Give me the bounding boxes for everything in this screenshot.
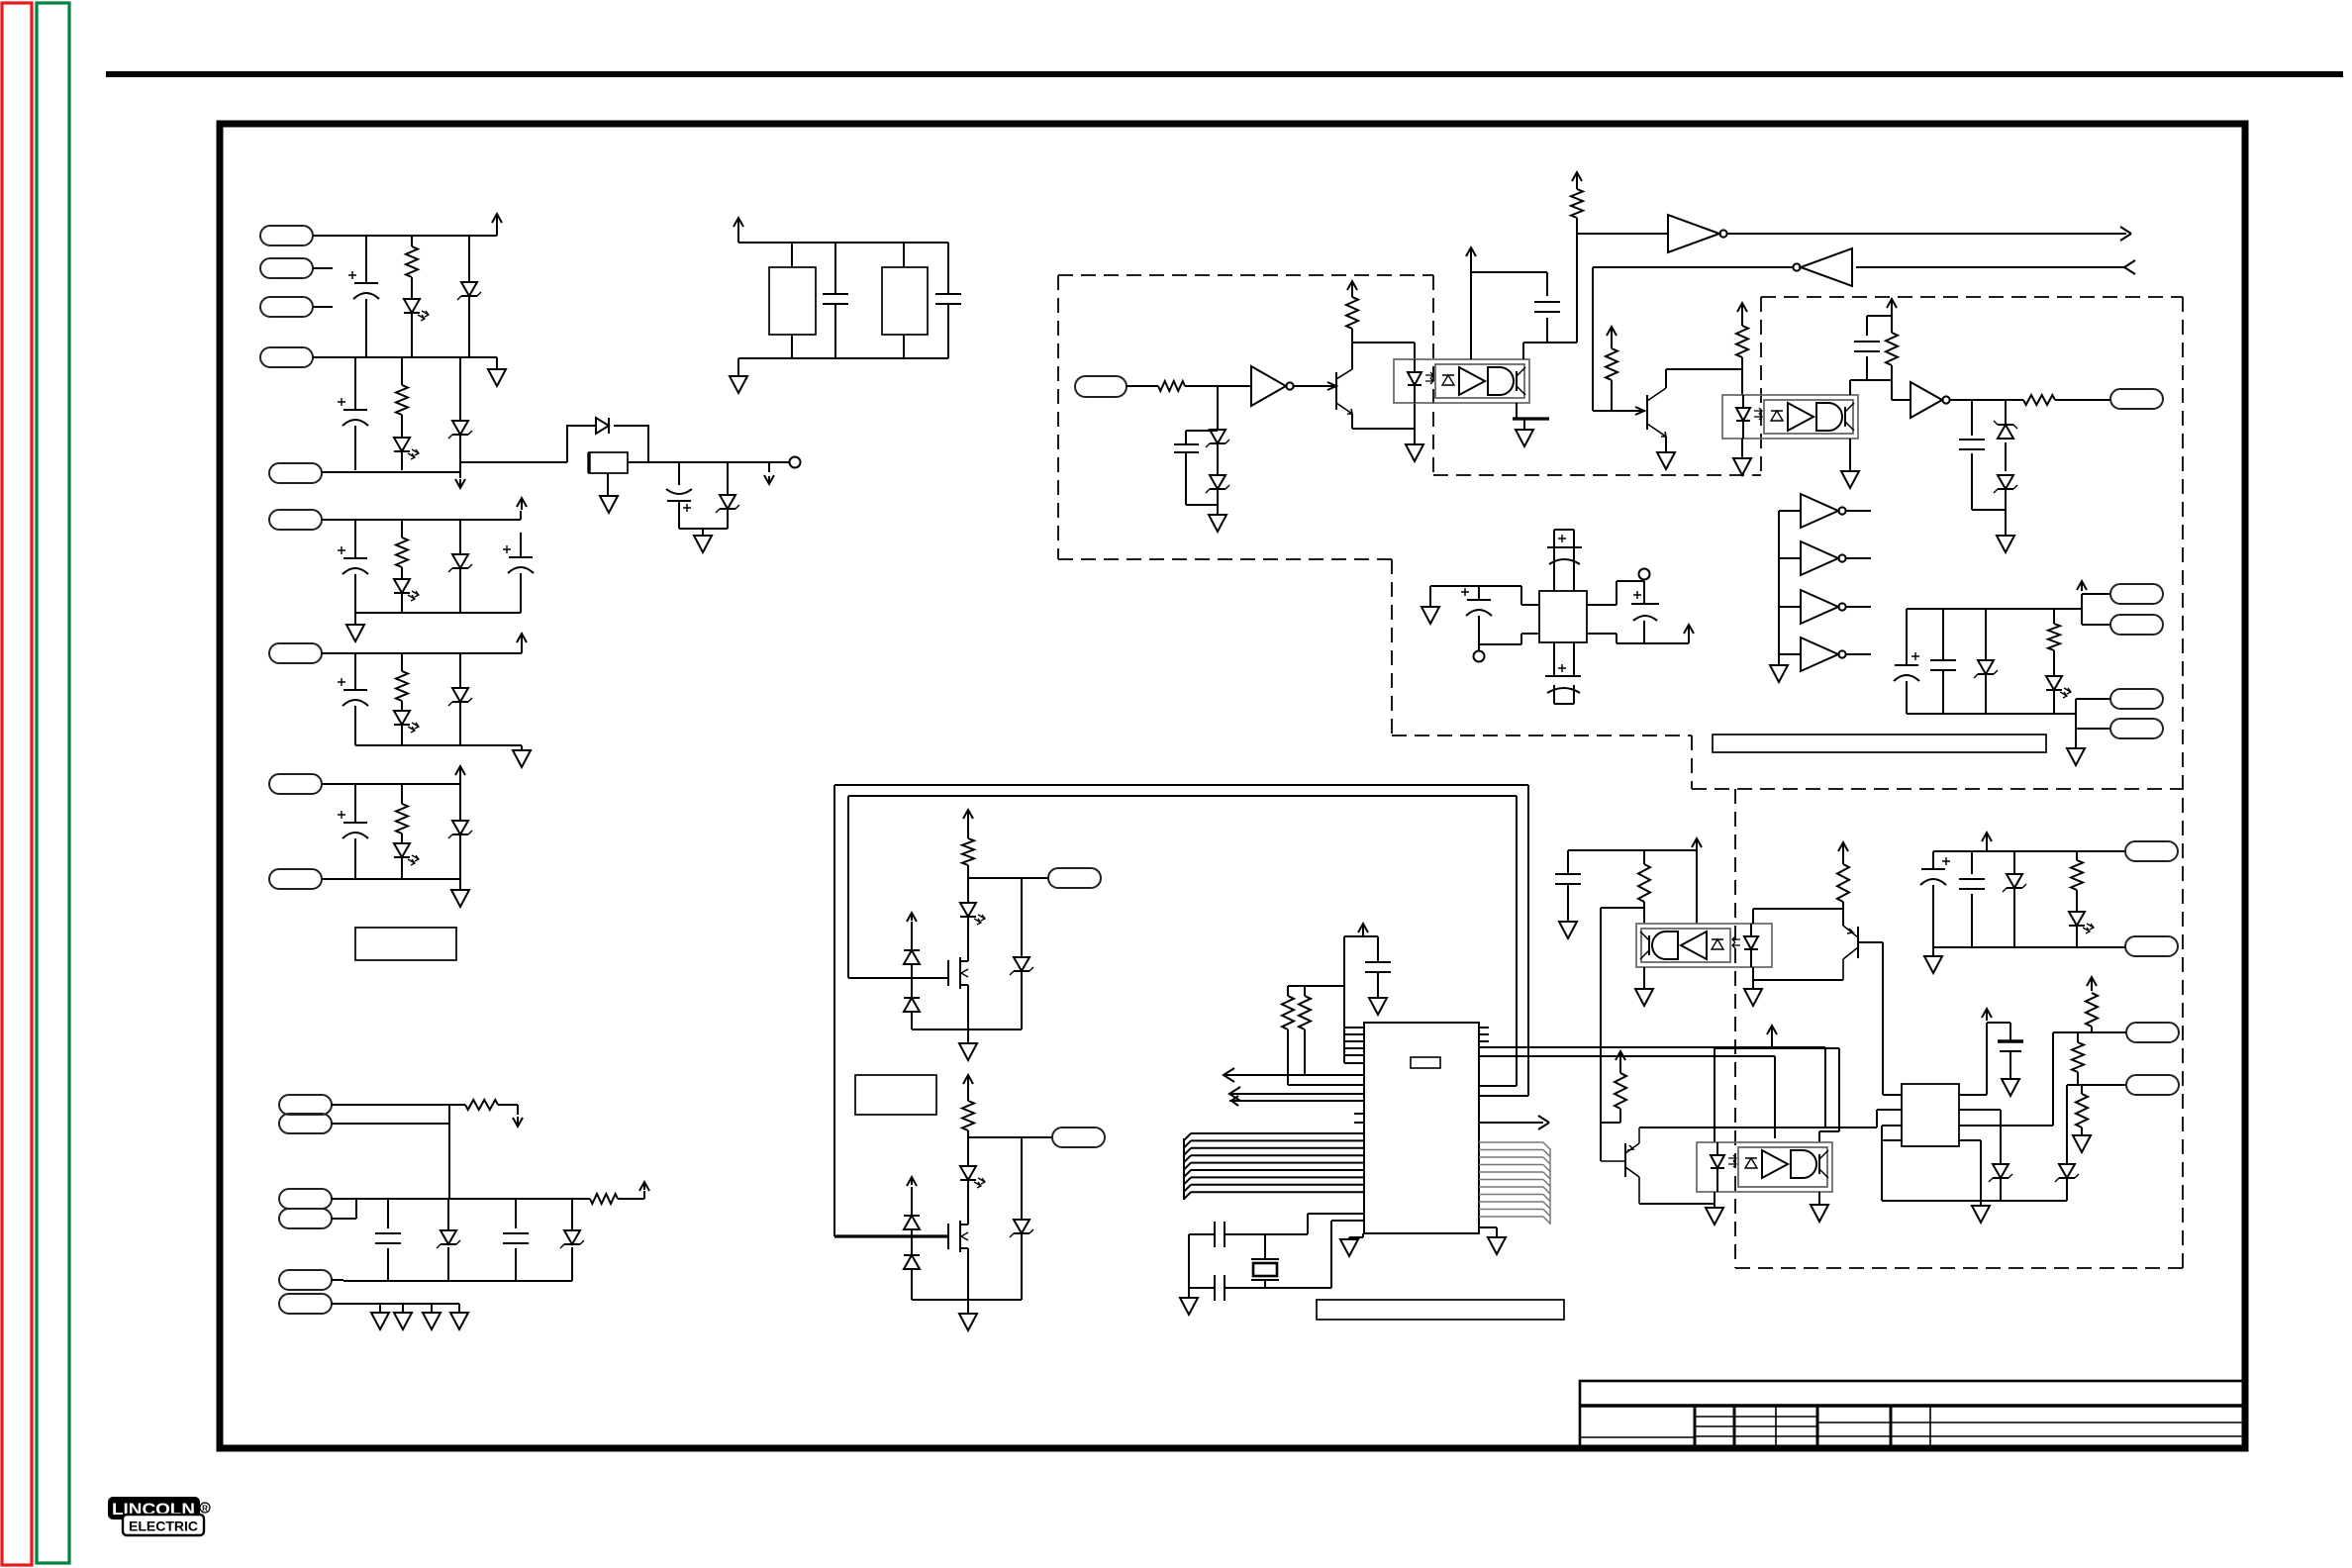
wire block5 top rail — [322, 778, 460, 784]
connector J6-1 — [1048, 868, 1101, 888]
wire opto4 emitter — [1818, 1192, 1820, 1205]
LED D26 — [960, 1166, 976, 1180]
power arrow VCC17 — [1358, 924, 1368, 932]
transistor Q1 — [1335, 372, 1337, 410]
capacitor C27 — [1932, 851, 1934, 947]
wire snubber bottom rail — [738, 358, 948, 376]
wire block2 bottom rail — [322, 462, 567, 478]
transistor Q6 pnp — [1624, 1143, 1626, 1177]
connector J2-2 — [279, 1114, 332, 1133]
dashed box driver section — [1735, 789, 2183, 1268]
inverter U1A — [1251, 366, 1286, 406]
wire mcu signal b — [1229, 1094, 1364, 1101]
wire supply rail bottom — [1907, 699, 2110, 748]
ground opto1 out — [1516, 430, 1533, 446]
wire mosfet2 node — [968, 1137, 1052, 1166]
svg-text:R: R — [202, 1505, 208, 1514]
wire J2 lower rail — [332, 1280, 572, 1281]
zener D25 — [1021, 1137, 1023, 1300]
wire mcu gnd left — [1349, 1233, 1363, 1239]
arrow J2 down — [513, 1117, 523, 1127]
capacitor C24 — [1215, 1275, 1225, 1301]
zener D12 — [459, 784, 461, 879]
arrow ctrl in — [2124, 260, 2135, 274]
wire U1D out — [1949, 399, 2110, 401]
resistor R14 — [1741, 313, 1743, 395]
resistor R28 — [2072, 1042, 2084, 1072]
wire snubber top rail — [738, 230, 948, 243]
wire opto3 led — [1753, 902, 1843, 989]
arrow net down — [455, 479, 465, 488]
power arrow VCC22 — [1982, 1009, 1992, 1021]
optocoupler U2 — [1394, 359, 1529, 403]
wire Q6 collector — [1639, 1203, 1715, 1205]
capacitor C18 — [1478, 586, 1480, 644]
arrow output down — [768, 462, 770, 472]
connector J5-4 — [2110, 719, 2163, 738]
inverter U5C — [1801, 590, 1838, 624]
ground block1 — [488, 369, 506, 386]
capacitor C8 — [387, 1199, 389, 1281]
zener D19 — [1985, 609, 1987, 714]
resistor R29 — [2076, 1094, 2088, 1127]
wire U5C out — [1846, 606, 1871, 608]
wire mcu gnd right — [1479, 1227, 1497, 1237]
ground Q2 — [1657, 452, 1675, 469]
schematic sheet border — [220, 124, 2245, 1448]
wire Q2 collector — [1666, 369, 1742, 388]
inverter U5A — [1801, 494, 1838, 528]
terminal dcdc in — [1474, 651, 1485, 662]
connector J2-3 — [279, 1189, 332, 1209]
resistor R4 — [401, 653, 403, 745]
connector J1-9 — [269, 869, 322, 889]
connector J6-2 — [1052, 1127, 1105, 1147]
wire gate loop outer bold — [834, 1234, 948, 1237]
capacitor C12 — [1174, 444, 1199, 452]
wire block4 bottom rail — [355, 745, 522, 750]
ground opto3 out — [1635, 989, 1653, 1006]
wire opto2 emitter — [1849, 439, 1851, 471]
wire J2 top pair — [332, 1105, 449, 1199]
resistor R5 — [401, 784, 403, 879]
ground opto1 led — [1406, 444, 1423, 461]
capacitor C6 — [354, 653, 356, 745]
terminal dcdc out — [1639, 569, 1650, 580]
ground mosfet2 — [959, 1314, 977, 1330]
wire mosfet1 bottom rail — [912, 1029, 1022, 1043]
wire block1 top rail — [313, 235, 497, 237]
power arrow VCC6 — [734, 218, 743, 230]
capacitor C22 — [1365, 962, 1391, 972]
connector J1-8 — [269, 774, 322, 794]
resistor R21 — [967, 1085, 969, 1137]
zener D2 — [468, 236, 470, 357]
zener D10 — [459, 653, 461, 745]
power arrow mosfet2 — [907, 1177, 917, 1186]
ground opto3 cap — [1559, 922, 1577, 938]
ground opto4 led — [1706, 1208, 1723, 1225]
connector J2-6 — [279, 1294, 332, 1314]
resistor R17 — [2053, 609, 2055, 714]
wire U5D out — [1846, 653, 1871, 655]
connector J5-1 — [2110, 584, 2163, 604]
wire opto3 input — [1601, 907, 1644, 909]
zener D4 — [459, 357, 461, 470]
power arrow VCC5 — [455, 766, 465, 778]
wire mcu signal a — [1224, 1074, 1364, 1076]
optocoupler U8 — [1697, 1142, 1832, 1192]
LED D7 — [394, 579, 410, 593]
wire mcu net B — [1479, 1055, 1775, 1057]
ground relay rc — [694, 536, 712, 552]
resistor R11 — [1351, 287, 1353, 369]
ground opto2 out — [1841, 471, 1859, 488]
top rule — [106, 71, 2343, 77]
connector J7-2 — [2125, 936, 2178, 956]
connector J5-2 — [2110, 615, 2163, 635]
capacitor C3 — [678, 462, 680, 529]
capacitor C14 — [1854, 342, 1880, 351]
label bar right — [1713, 735, 2046, 752]
wire mcu vcc tee — [1344, 932, 1378, 1063]
power arrow VCC4 — [517, 634, 527, 645]
LED D9 — [394, 711, 410, 725]
connector J3-1 — [1075, 376, 1127, 397]
resistor module RN1 — [791, 243, 793, 358]
ground xtal — [1180, 1298, 1198, 1315]
LED D3 — [394, 438, 410, 451]
connector J1-5 — [269, 463, 322, 483]
mosfet Q3 — [947, 960, 949, 986]
ground opto2 led — [1733, 458, 1751, 475]
power arrow VCC1 — [492, 214, 502, 236]
inverter U1D — [1911, 382, 1942, 418]
resistor R25 — [1837, 864, 1849, 902]
ground block3 — [346, 625, 364, 641]
power arrow VCC18 — [1692, 838, 1702, 847]
inverter U5D — [1801, 637, 1838, 671]
driver IC U9 — [1902, 1084, 1959, 1146]
power arrow VCC13 — [1684, 625, 1694, 634]
ground block4 — [513, 750, 531, 767]
dashed box feedback section — [1058, 275, 1692, 789]
capacitor C16 top — [1554, 530, 1574, 591]
arrow mcu signal b — [1229, 1087, 1240, 1106]
page edge green bar — [37, 3, 69, 1563]
capacitor C20 — [1906, 609, 1908, 714]
bus mcu right — [1479, 1142, 1550, 1224]
inverter U1C — [1801, 248, 1852, 286]
power arrow VCC19 — [1838, 842, 1848, 851]
diode D27 — [911, 1187, 913, 1300]
bus mcu left — [1184, 1133, 1364, 1199]
wire ctrl out — [1577, 233, 1668, 235]
wire vcc8 branch — [1471, 257, 1547, 359]
wire block3 bottom rail — [355, 613, 521, 625]
wire mosfet1 node — [968, 878, 1048, 903]
terminal output — [790, 457, 801, 468]
arrow mcu signal a — [1224, 1068, 1234, 1082]
ground driver — [1972, 1206, 1990, 1223]
wire dcdc left lower — [1479, 634, 1539, 650]
ground driver cap — [2002, 1079, 2019, 1096]
ground zener stack — [1997, 536, 2014, 552]
power arrow mosfet1 — [907, 913, 917, 922]
diode D24 — [904, 998, 920, 1012]
wire net A vertical — [1600, 908, 1602, 1161]
resistor R6 — [449, 1105, 518, 1115]
optocoupler U3 — [1722, 395, 1858, 439]
power arrow VCC20 — [1616, 1051, 1625, 1060]
zener D15 — [1210, 430, 1225, 443]
wire ctrl out long — [1727, 233, 2126, 235]
resistor R27 — [2086, 993, 2098, 1027]
connector J1-2 — [260, 258, 313, 278]
transistor Q2 — [1646, 395, 1648, 430]
capacitor C19 — [1643, 594, 1645, 643]
ground relay — [600, 496, 618, 513]
zener D18 — [1998, 475, 2013, 489]
wire relay rc ground rail — [679, 529, 728, 536]
resistor R3 — [401, 520, 403, 613]
wire dcdc right lower — [1587, 634, 1689, 643]
ground inverter bus — [1770, 665, 1788, 682]
label box block area — [355, 928, 456, 960]
capacitor C11 — [947, 243, 949, 358]
ground J2 b — [394, 1313, 412, 1329]
capacitor C1 — [365, 236, 367, 357]
wire U1C out — [1593, 267, 1794, 415]
zener D30 — [2059, 1164, 2075, 1178]
wire xtal lower — [1189, 1221, 1364, 1288]
wire mcu net A — [1479, 1046, 1825, 1048]
wire net A to driver — [1639, 1047, 1902, 1127]
connector J1-7 — [269, 643, 322, 663]
connector J1-4 — [260, 347, 313, 367]
power arrow VCC14 — [2077, 581, 2087, 591]
power arrow VCC23 — [2087, 977, 2097, 991]
zener D21 — [1021, 878, 1023, 1029]
resistor R24 — [1638, 864, 1650, 902]
wire mosfet2 bottom rail — [912, 1300, 1022, 1314]
wire inverter bus — [1779, 511, 1801, 665]
wire driver vcc pin — [1959, 1023, 2010, 1095]
wire block3 top rail — [322, 511, 521, 520]
svg-text:ELECTRIC: ELECTRIC — [129, 1519, 198, 1534]
power arrow VCC15 — [963, 810, 973, 820]
wire opto2 collector net — [1850, 316, 1892, 395]
wire Q2 emitter — [1665, 437, 1667, 452]
wire U1A out to Q1 — [1294, 382, 1336, 390]
connector J2-4 — [279, 1209, 332, 1228]
arrow mcu out — [1538, 1116, 1549, 1129]
wire block4 top rail — [322, 645, 522, 653]
zener D14 — [571, 1199, 573, 1281]
wire net B to opto4 — [1774, 1056, 1776, 1138]
capacitor C26 — [1998, 1039, 2023, 1042]
transistor Q5 pnp — [1857, 927, 1859, 958]
LED D20 — [2046, 676, 2062, 690]
ground isolated supply — [1924, 956, 1942, 973]
crystal Y1 — [1251, 1234, 1279, 1288]
ground mcu cap — [1369, 998, 1387, 1015]
resistor R26 — [1615, 1073, 1626, 1109]
capacitor C2 — [354, 357, 356, 470]
wire U5A out — [1846, 510, 1871, 512]
wire U5B out — [1846, 557, 1871, 559]
wire driver out2 — [1959, 1032, 2126, 1126]
dashed box output section — [1692, 297, 2183, 1268]
power arrow VCC7 — [1347, 281, 1357, 290]
wire relay bypass loop — [567, 426, 648, 462]
ground opto4 out — [1811, 1205, 1828, 1222]
ground snubber — [730, 376, 747, 393]
resistor R10 — [1158, 381, 1185, 391]
resistor R22 — [1282, 996, 1294, 1029]
wire opto1 thick bar — [1513, 417, 1549, 420]
wire opto3 vcc rail — [1568, 850, 1697, 924]
resistor R13 — [1611, 335, 1613, 411]
inverter U1B — [1668, 215, 1719, 252]
wire J1-3 stub — [313, 306, 333, 308]
power arrow VCC9 — [1572, 172, 1582, 181]
LED D11 — [394, 843, 410, 857]
wire block1 bottom rail — [313, 357, 497, 369]
power arrow VCC24 — [1982, 833, 1992, 841]
ground opto3 led — [1744, 989, 1762, 1006]
ground box A input — [1209, 515, 1226, 532]
power arrow VCC12 — [1887, 299, 1897, 308]
connector J7-1 — [2125, 841, 2178, 861]
capacitor C15 — [1959, 440, 1985, 449]
connector J1-3 — [260, 297, 313, 317]
power arrow VCC10 — [1607, 327, 1617, 336]
wire Q1 emitter — [1352, 403, 1415, 444]
LED D1 — [404, 299, 420, 313]
ground dcdc — [1421, 607, 1439, 624]
microcontroller U6 — [1364, 1023, 1479, 1233]
zener D13 — [447, 1199, 449, 1281]
connector J4-1 — [2110, 389, 2163, 409]
wire gate loop inner — [848, 796, 1517, 1086]
capacitor C5 — [520, 533, 522, 613]
power arrow VCC11 — [1737, 303, 1747, 313]
wire mcu left stubs — [1354, 1114, 1364, 1123]
wire zener stack — [1972, 400, 2006, 536]
resistor R15 — [1892, 307, 1911, 400]
dashed box gate drive section — [1433, 275, 1761, 475]
capacitor C17 bottom — [1554, 642, 1574, 704]
zener D17 — [1998, 425, 2013, 439]
wire mcu right stubs — [1479, 1028, 1489, 1041]
zener D16 — [1210, 475, 1225, 489]
zener D31 — [2013, 851, 2015, 947]
wire driver out1 — [1959, 1110, 2001, 1164]
ground supply rail — [2067, 748, 2085, 765]
wire J2 main rail — [332, 1199, 590, 1219]
connector J7-4 — [2126, 1075, 2179, 1095]
resistor module RN2 — [903, 243, 905, 358]
wire mcu arrow out — [1479, 1122, 1543, 1124]
resistor R7 — [618, 1191, 644, 1199]
power arrow VCC21 — [1767, 1026, 1777, 1034]
zener D29 — [1993, 1164, 2009, 1178]
wire opto4 led supply — [1715, 1032, 1839, 1142]
resistor R16 — [2023, 395, 2055, 405]
wire opto3 out emitter — [1643, 967, 1645, 989]
ground J2 a — [371, 1313, 389, 1329]
diode D5 — [596, 418, 609, 434]
label box mosfet — [855, 1075, 936, 1115]
title block — [1580, 1381, 2245, 1447]
wire mcu pin comb — [1344, 1028, 1364, 1063]
inverter U5B — [1801, 541, 1838, 575]
wire xtal upper — [1189, 1214, 1364, 1298]
ground mosfet1 — [959, 1043, 977, 1060]
connector J7-3 — [2126, 1023, 2179, 1042]
capacitor C4 — [354, 520, 356, 613]
wire J2 ground rail — [332, 1304, 459, 1313]
mosfet Q4 — [947, 1224, 949, 1249]
resistor R20 — [967, 820, 969, 878]
ground J2 c — [423, 1313, 441, 1329]
wire gate loop outer — [834, 785, 1528, 1236]
power arrow J2 — [639, 1182, 649, 1191]
diode D23 — [911, 922, 913, 1029]
page edge red bar — [2, 3, 32, 1565]
power arrow VCC16 — [963, 1075, 973, 1085]
resistor R2 — [401, 357, 403, 470]
wire driver left lower pins — [1882, 1126, 1902, 1201]
capacitor C7 — [354, 784, 356, 879]
wire dcdc right upper — [1587, 581, 1644, 605]
capacitor C25 — [1555, 874, 1581, 884]
capacitor C23 — [1215, 1222, 1225, 1247]
ground mcu left — [1340, 1239, 1358, 1256]
diode D28 — [904, 1255, 920, 1269]
resistor R30 — [2076, 851, 2078, 947]
zener D6 — [727, 462, 729, 529]
connector J5-3 — [2110, 689, 2163, 709]
wire supply rail top — [1907, 594, 2110, 625]
ground block5 — [451, 890, 469, 907]
relay K1 coil — [589, 452, 628, 473]
connector J1-6 — [269, 510, 322, 530]
wire block5 bottom rail — [322, 879, 460, 890]
wire ctrl in long — [1856, 266, 2124, 268]
wire relay output — [628, 461, 789, 463]
ground mcu right — [1488, 1237, 1506, 1254]
wire driver gnd rail — [1882, 1140, 2067, 1206]
capacitor C13 — [1547, 272, 1577, 343]
LED D22 — [960, 903, 976, 917]
wire relay coil ground stem — [607, 473, 609, 496]
wire J3 input — [1127, 385, 1251, 387]
ground R29 — [2073, 1135, 2091, 1152]
wire Q1 collector to opto — [1352, 343, 1415, 359]
dc-dc converter U4 — [1539, 591, 1587, 642]
wire dcdc left upper — [1430, 586, 1539, 607]
power arrow VCC3 — [517, 498, 527, 510]
label chip marker — [1411, 1057, 1440, 1068]
power arrow VCC8 — [1466, 247, 1476, 257]
wire opto4 led gnd — [1714, 1192, 1715, 1208]
logo Lincoln Electric — [108, 1497, 210, 1535]
wire opto1 collector — [1523, 343, 1547, 359]
LED D32 — [2069, 912, 2085, 926]
wire isolated supply top rail — [1933, 850, 2125, 852]
